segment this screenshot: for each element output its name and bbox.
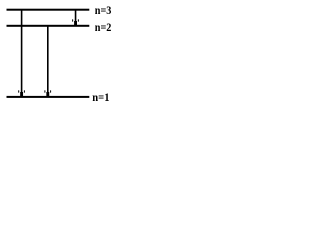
transition arrow n=3 to n=1 [18, 10, 25, 97]
shaft [47, 26, 49, 94]
right barb [78, 19, 79, 22]
level line n=3 [7, 9, 90, 11]
svg-text:n=3: n=3 [95, 5, 112, 17]
level line n=1 [7, 96, 90, 98]
svg-text:n=2: n=2 [95, 22, 112, 34]
level line n=2 [7, 25, 90, 27]
energy level diagram [0, 0, 121, 107]
svg-text:n=1: n=1 [92, 92, 109, 104]
left barb [44, 90, 45, 93]
arrowhead tip [74, 21, 77, 26]
shaft [21, 10, 23, 94]
arrowhead tip [46, 92, 49, 97]
left barb [72, 19, 73, 22]
right barb [24, 90, 25, 93]
transition arrow n=2 to n=1 [44, 26, 51, 97]
right barb [50, 90, 51, 93]
transition arrow n=3 to n=2 [72, 10, 79, 26]
left barb [18, 90, 19, 93]
shaft [75, 10, 77, 23]
arrowhead tip [20, 92, 23, 97]
